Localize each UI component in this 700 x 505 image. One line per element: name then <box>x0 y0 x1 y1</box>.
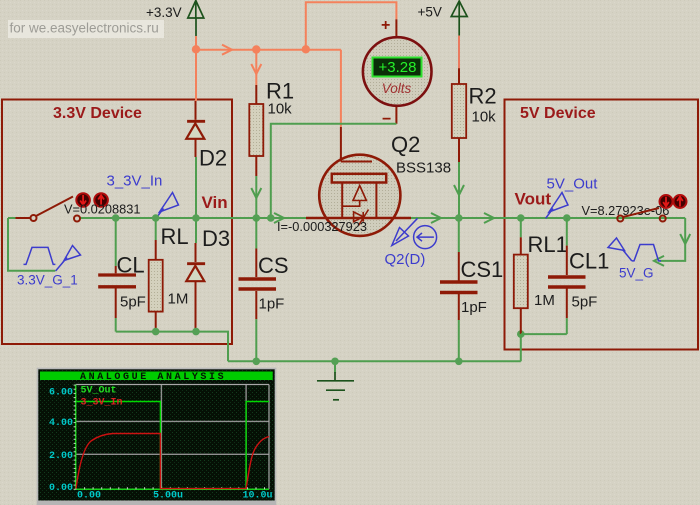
voltmeter U-probe <box>363 17 432 128</box>
svg-text:D3: D3 <box>202 226 230 251</box>
svg-text:CL1: CL1 <box>569 249 609 274</box>
svg-text:5V_Out: 5V_Out <box>547 176 599 193</box>
svg-text:3_3V_In: 3_3V_In <box>81 398 123 409</box>
svg-text:−: − <box>382 111 391 128</box>
svg-text:CS: CS <box>258 253 289 278</box>
svg-text:ANALOGUE ANALYSIS: ANALOGUE ANALYSIS <box>80 372 226 383</box>
resistor RL1 <box>514 218 568 361</box>
wire Vout bus <box>411 213 685 223</box>
wire bottom rail right box <box>521 333 567 335</box>
svg-text:CS1: CS1 <box>461 257 504 282</box>
analysis window <box>37 369 276 505</box>
svg-text:1pF: 1pF <box>259 296 285 313</box>
svg-text:5V_Out: 5V_Out <box>81 386 117 397</box>
transistor Q2 <box>306 127 451 236</box>
diode D2 <box>186 101 227 218</box>
switch SW1 actuator <box>76 193 108 207</box>
svg-text:+3.3V: +3.3V <box>146 5 182 20</box>
resistor RL <box>149 218 189 332</box>
capacitor CS <box>239 218 289 365</box>
svg-text:3.3V Device: 3.3V Device <box>53 105 142 122</box>
svg-text:Q2: Q2 <box>391 132 420 157</box>
switch SW1 <box>31 197 81 222</box>
svg-text:10.0u: 10.0u <box>243 491 273 502</box>
svg-text:5pF: 5pF <box>120 294 146 311</box>
diode D3 <box>186 218 230 332</box>
wire bottom rail left box <box>116 332 228 362</box>
trace 5V_Out green <box>76 402 269 489</box>
svg-text:for we.easyelectronics.ru: for we.easyelectronics.ru <box>10 21 159 36</box>
svg-text:3_3V_In: 3_3V_In <box>107 173 163 190</box>
watermark band <box>8 20 164 38</box>
power +5V <box>418 1 468 36</box>
svg-text:2.00: 2.00 <box>49 451 73 462</box>
probe 3_3V_In <box>107 173 179 219</box>
svg-text:I=-0.000327923: I=-0.000327923 <box>277 219 367 234</box>
svg-text:3.3V_G_1: 3.3V_G_1 <box>17 273 78 288</box>
wire ground bus <box>228 360 521 362</box>
junction dots Vout bus <box>455 214 571 365</box>
svg-text:6.00: 6.00 <box>49 388 73 399</box>
resistor R2 <box>452 68 497 218</box>
generator 3.3V_G_1 <box>8 218 81 288</box>
power +3.3V <box>146 1 204 37</box>
svg-text:CL: CL <box>117 253 145 278</box>
wire +5V to R2 <box>458 36 460 69</box>
svg-text:1pF: 1pF <box>461 299 487 316</box>
box 3.3V Device <box>2 100 232 345</box>
svg-text:5V_G: 5V_G <box>619 266 654 281</box>
svg-text:Volts: Volts <box>382 81 412 96</box>
svg-text:4.00: 4.00 <box>49 418 73 429</box>
svg-text:1M: 1M <box>534 292 555 309</box>
svg-text:10k: 10k <box>268 101 293 118</box>
ground <box>317 361 354 400</box>
wire voltmeter negative to Vin node <box>271 124 397 218</box>
wire Vin bus left <box>8 213 306 223</box>
trace 3_3V_In red <box>76 434 269 489</box>
svg-text:R2: R2 <box>469 84 497 109</box>
svg-text:Q2(D): Q2(D) <box>385 251 426 268</box>
svg-text:Vin: Vin <box>202 193 228 212</box>
box 5V Device <box>505 100 699 350</box>
capacitor CL <box>98 218 146 332</box>
capacitor CS1 <box>440 218 503 361</box>
svg-text:5pF: 5pF <box>572 294 598 311</box>
svg-text:+3.28: +3.28 <box>379 59 417 76</box>
svg-text:5V Device: 5V Device <box>520 105 596 122</box>
current probe Q2(D) <box>385 218 437 268</box>
probe 5V_Out <box>546 176 599 219</box>
svg-text:BSS138: BSS138 <box>396 160 451 177</box>
svg-text:RL: RL <box>161 224 189 249</box>
svg-text:V=0.0208831: V=0.0208831 <box>64 202 141 217</box>
legend analysis <box>81 386 123 409</box>
resistor R1 <box>249 79 294 219</box>
capacitor CL1 <box>548 218 609 334</box>
svg-text:D2: D2 <box>199 146 227 171</box>
svg-text:RL1: RL1 <box>528 232 568 257</box>
svg-text:10k: 10k <box>472 109 497 126</box>
svg-text:0.00: 0.00 <box>49 483 73 494</box>
wire 3.3V rail <box>192 2 397 127</box>
svg-text:1M: 1M <box>168 291 189 308</box>
switch SW2 <box>617 208 665 222</box>
generator 5V_G <box>608 238 661 281</box>
svg-text:5.00u: 5.00u <box>153 491 183 502</box>
wire switch SW2 to generator <box>654 218 690 266</box>
junction dots Vin bus <box>112 214 339 365</box>
svg-text:+: + <box>381 17 390 34</box>
svg-text:0.00: 0.00 <box>77 491 101 502</box>
switch SW2 actuator <box>660 195 687 208</box>
svg-text:+5V: +5V <box>418 5 442 20</box>
